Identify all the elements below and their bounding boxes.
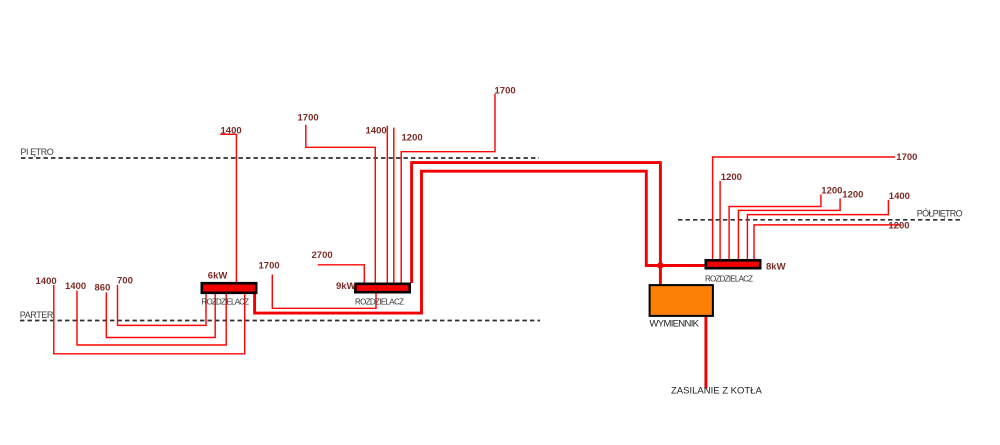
manifold 8kW ROZDZIELACZ xyxy=(706,260,760,268)
floor line POLPIETRO (dashed) xyxy=(678,219,962,221)
manifold 6kW ROZDZIELACZ xyxy=(202,283,256,293)
wire: 8kW circuit 1200 a xyxy=(719,181,721,260)
wire: 9kW top circuit 1400 xyxy=(386,126,388,283)
wire: boiler supply from WYMIENNIK bottom xyxy=(704,317,707,389)
wire: 8kW circuit 1200 c xyxy=(738,198,840,259)
svg-text:2700: 2700 xyxy=(312,250,333,261)
svg-text:1400: 1400 xyxy=(889,191,910,202)
wire: 8kW circuit 1400 xyxy=(747,200,888,260)
wire: 9kW top circuit 1700 left xyxy=(306,125,376,283)
svg-text:ROZDZIELACZ: ROZDZIELACZ xyxy=(202,298,250,307)
manifold 9kW ROZDZIELACZ xyxy=(355,284,409,292)
svg-text:PI ĘTRO: PI ĘTRO xyxy=(20,147,53,157)
svg-text:ROZDZIELACZ: ROZDZIELACZ xyxy=(355,297,404,306)
heat exchanger WYMIENNIK xyxy=(650,285,713,316)
wire: 9kW top circuit 1700 right xyxy=(401,94,495,283)
floor line PARTER (dashed) xyxy=(20,320,540,322)
svg-text:1200: 1200 xyxy=(402,132,423,143)
svg-text:1400: 1400 xyxy=(36,276,57,287)
wire: 6kW bottom circuit 1400 inner xyxy=(77,291,226,346)
svg-text:1700: 1700 xyxy=(298,113,319,124)
svg-text:PÓŁPIĘTRO: PÓŁPIĘTRO xyxy=(917,209,963,219)
wire: 6kW top circuit 1400 xyxy=(220,134,236,283)
svg-text:1400: 1400 xyxy=(221,126,242,137)
wire: 9kW top circuit 1200 xyxy=(393,128,395,283)
wire: 6kW bottom circuit 700 xyxy=(118,285,207,325)
svg-text:ZASILANIE Z KOTŁA: ZASILANIE Z KOTŁA xyxy=(671,386,762,397)
svg-text:1200: 1200 xyxy=(842,189,863,200)
wire: 8kW circuit 1200 d below POLPIETRO xyxy=(754,225,902,260)
wire: thick supply pipe from 9kW manifold top to junction and WYMIENNIK xyxy=(412,163,661,285)
svg-text:8kW: 8kW xyxy=(766,261,786,272)
wire: thick supply pipe from 6kW manifold bottom to junction and 8kW manifold xyxy=(255,171,705,313)
wire: 6kW bottom circuit 860 xyxy=(106,293,215,338)
svg-text:1200: 1200 xyxy=(821,185,842,196)
svg-text:ROZDZIELACZ: ROZDZIELACZ xyxy=(705,274,753,283)
svg-text:1200: 1200 xyxy=(721,172,742,183)
svg-text:9kW: 9kW xyxy=(336,281,356,292)
svg-text:860: 860 xyxy=(95,282,111,293)
svg-text:6kW: 6kW xyxy=(208,270,228,281)
floor line PIETRO (dashed) xyxy=(21,157,539,159)
svg-text:1700: 1700 xyxy=(495,86,516,97)
wire: 9kW circuit 2700 xyxy=(318,265,365,283)
svg-text:700: 700 xyxy=(117,275,133,286)
svg-text:PARTER: PARTER xyxy=(20,310,54,320)
wire: 8kW circuit 1200 b xyxy=(729,195,821,260)
svg-text:1200: 1200 xyxy=(888,220,909,231)
svg-text:WYMIENNIK: WYMIENNIK xyxy=(650,318,700,329)
svg-text:1700: 1700 xyxy=(896,152,917,163)
wire: 6kW bottom circuit 1400 outer xyxy=(54,285,245,354)
wire: 9kW bottom circuit 1700 xyxy=(272,275,376,309)
svg-text:1700: 1700 xyxy=(259,260,280,271)
svg-text:1400: 1400 xyxy=(366,125,387,136)
node: junction dot xyxy=(657,262,663,268)
svg-text:1400: 1400 xyxy=(65,281,86,292)
wire: 8kW circuit 1700 top loop xyxy=(713,157,895,260)
